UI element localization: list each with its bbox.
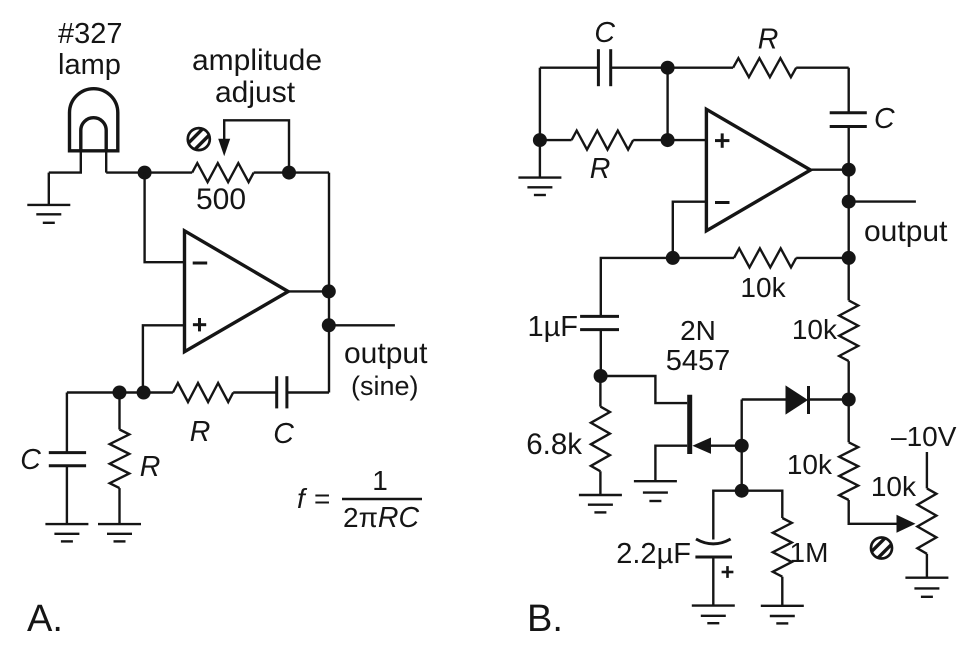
diode D1 triangle xyxy=(786,385,809,414)
transistor Q1 gate arrow xyxy=(692,438,711,454)
wire C shunt to ground xyxy=(66,466,68,524)
svg-text:C: C xyxy=(594,17,615,49)
wire top left B xyxy=(540,66,599,68)
wire B8 to 6.8k xyxy=(599,376,601,407)
wire inverting input A xyxy=(145,173,185,263)
svg-text:C: C xyxy=(273,418,294,450)
wire gate vertical xyxy=(741,400,743,491)
wire top right B xyxy=(796,66,849,68)
svg-text:R: R xyxy=(590,153,611,185)
svg-text:2.2µF: 2.2µF xyxy=(616,538,691,570)
svg-text:–10V: –10V xyxy=(891,421,957,452)
lamp lead right xyxy=(105,151,107,173)
resistor R (series) xyxy=(173,383,233,402)
transistor Q1 channel bar xyxy=(687,395,692,454)
node B7 xyxy=(666,251,680,265)
node D2 xyxy=(282,166,296,180)
svg-text:1µF: 1µF xyxy=(527,311,578,343)
ground G2b xyxy=(98,524,141,541)
svg-text:output: output xyxy=(344,337,428,370)
wire feedback right B xyxy=(796,257,849,259)
svg-text:2N: 2N xyxy=(680,315,716,346)
resistor 1M xyxy=(773,518,792,577)
wire non-inverting input A xyxy=(143,325,185,392)
svg-text:10k: 10k xyxy=(792,314,838,345)
resistor 500 xyxy=(192,163,254,182)
potentiometer wiper arrow xyxy=(218,139,230,156)
wire op-amp B output xyxy=(811,168,849,170)
ground G6 xyxy=(692,606,735,624)
svg-text:6.8k: 6.8k xyxy=(526,428,582,461)
wire ground stem A1 xyxy=(48,173,50,205)
node B2 xyxy=(533,133,547,147)
wire main horizontal A xyxy=(106,171,192,173)
lamp L1 inner dome xyxy=(81,118,106,151)
wire C right B top xyxy=(848,68,850,113)
svg-text:amplitude: amplitude xyxy=(192,44,322,77)
ground G5 xyxy=(634,481,677,501)
wire feedback to 1uF corner xyxy=(601,258,673,317)
wire feedback left B xyxy=(673,257,734,259)
wire 1M branch xyxy=(742,491,783,518)
resistor 10k feedback xyxy=(734,248,796,267)
ground G4 xyxy=(579,495,622,512)
wire resistor to node D2 xyxy=(254,171,329,173)
svg-text:output: output xyxy=(864,215,948,248)
svg-text:R: R xyxy=(190,416,211,448)
ground G2 xyxy=(45,524,88,541)
wire top middle B xyxy=(611,66,733,68)
node B4 xyxy=(842,163,856,177)
capacitor 1uF plates xyxy=(580,316,619,329)
svg-text:lamp: lamp xyxy=(58,49,121,81)
node D4 xyxy=(322,318,336,332)
wire bottom A left xyxy=(67,391,173,393)
wire 2.2uF to ground xyxy=(712,557,714,606)
lamp L1 envelope xyxy=(70,89,118,151)
wire R to C series xyxy=(233,391,277,393)
svg-text:#327: #327 xyxy=(58,18,123,50)
adjust symbol H1 (hatched circle) xyxy=(185,125,213,153)
svg-text:5457: 5457 xyxy=(666,345,731,377)
capacitor 2.2uF curved plate xyxy=(696,539,731,544)
ground G1 xyxy=(27,205,70,223)
svg-text:(sine): (sine) xyxy=(351,371,419,401)
wire JFET source xyxy=(655,446,687,482)
node B3 xyxy=(661,133,675,147)
svg-text:adjust: adjust xyxy=(215,76,296,109)
wire output stub B xyxy=(849,200,916,202)
wire resistor to op-amp xyxy=(633,139,706,141)
lamp lead left xyxy=(49,151,81,173)
potentiometer 10k xyxy=(917,488,936,553)
wire diode anode xyxy=(742,398,786,400)
node B5 xyxy=(842,195,856,209)
wire output stub A xyxy=(329,324,395,326)
wire chain to wiper xyxy=(849,500,899,524)
wire right vertical A xyxy=(328,173,330,393)
ground G8 xyxy=(905,578,948,597)
op-amp U1 xyxy=(185,231,289,352)
ground G7 xyxy=(761,606,804,624)
node D3 xyxy=(322,284,336,298)
capacitor C (series) plates xyxy=(277,376,287,408)
svg-text:2πRC: 2πRC xyxy=(343,502,419,534)
wire JFET gate xyxy=(708,445,742,447)
node B9 xyxy=(735,439,749,453)
op-amp U1 plus xyxy=(193,318,206,331)
node D5 xyxy=(113,386,127,400)
resistor R shunt xyxy=(110,430,130,489)
resistor 10k chain lower xyxy=(839,442,858,500)
wire ground stem B2 xyxy=(539,140,541,178)
op-amp U2 xyxy=(706,109,810,231)
wire R shunt to ground xyxy=(118,488,120,524)
wire C right B bottom xyxy=(848,127,850,170)
wire C shunt branch xyxy=(66,393,68,453)
svg-text:B.: B. xyxy=(527,598,563,640)
node B1 xyxy=(661,61,675,75)
svg-text:500: 500 xyxy=(196,183,246,216)
wire diode cathode xyxy=(809,398,849,400)
wire pot to ground xyxy=(926,554,928,578)
wire 1M to ground xyxy=(781,577,783,606)
label plus 2.2uF xyxy=(722,566,734,578)
wire output vertical B xyxy=(848,170,850,301)
node B8 xyxy=(594,369,608,383)
op-amp U2 plus xyxy=(715,133,729,147)
svg-text:1: 1 xyxy=(372,465,388,496)
ground G3 xyxy=(518,178,561,195)
svg-text:C: C xyxy=(874,103,895,135)
wire 6.8k to ground xyxy=(599,471,601,495)
wire JFET drain xyxy=(601,376,688,403)
wire 2.2uF branch xyxy=(713,491,741,540)
formula fraction bar xyxy=(342,498,422,500)
wire B2 to resistor xyxy=(540,139,572,141)
op-amp U2 minus xyxy=(715,201,730,204)
resistor R top B xyxy=(733,58,796,77)
wire inverting input B xyxy=(673,202,707,258)
wire left vertical B xyxy=(539,68,541,140)
svg-text:1M: 1M xyxy=(790,537,829,568)
wire 1uF to node B8 xyxy=(600,330,602,376)
diode D1 cathode bar xyxy=(807,386,810,414)
wire chain middle xyxy=(848,361,850,442)
formula f = 1/2piRC xyxy=(297,465,419,534)
svg-text:=: = xyxy=(314,483,330,514)
wiper arrow pot xyxy=(897,515,916,533)
svg-text:C: C xyxy=(20,444,41,476)
capacitor C right B plates xyxy=(830,113,867,127)
wire -10V to pot xyxy=(926,452,928,488)
resistor 10k chain upper xyxy=(839,300,858,361)
svg-text:R: R xyxy=(140,451,161,483)
svg-text:10k: 10k xyxy=(740,272,786,303)
potentiometer wiper wire xyxy=(224,120,289,172)
capacitor C top B plates xyxy=(598,49,610,86)
node B11 xyxy=(842,393,856,407)
op-amp U1 minus xyxy=(193,262,208,265)
node B6 xyxy=(842,251,856,265)
node D6 xyxy=(137,386,151,400)
svg-text:10k: 10k xyxy=(871,471,917,502)
wire R shunt branch xyxy=(118,393,120,430)
wire op-amp output A xyxy=(288,290,329,292)
node B10 xyxy=(735,484,749,498)
capacitor C shunt plates xyxy=(49,453,86,466)
wire vertical B1-B3 xyxy=(666,68,668,140)
wire C series to corner xyxy=(287,391,329,393)
resistor R left B xyxy=(572,131,634,150)
resistor 6.8k xyxy=(591,407,610,472)
svg-text:R: R xyxy=(758,24,779,56)
node D1 xyxy=(138,166,152,180)
svg-text:10k: 10k xyxy=(787,449,833,480)
capacitor 2.2uF straight plate xyxy=(695,556,732,559)
svg-text:A.: A. xyxy=(27,598,63,640)
adjust symbol H2 (hatched circle) xyxy=(868,534,896,562)
